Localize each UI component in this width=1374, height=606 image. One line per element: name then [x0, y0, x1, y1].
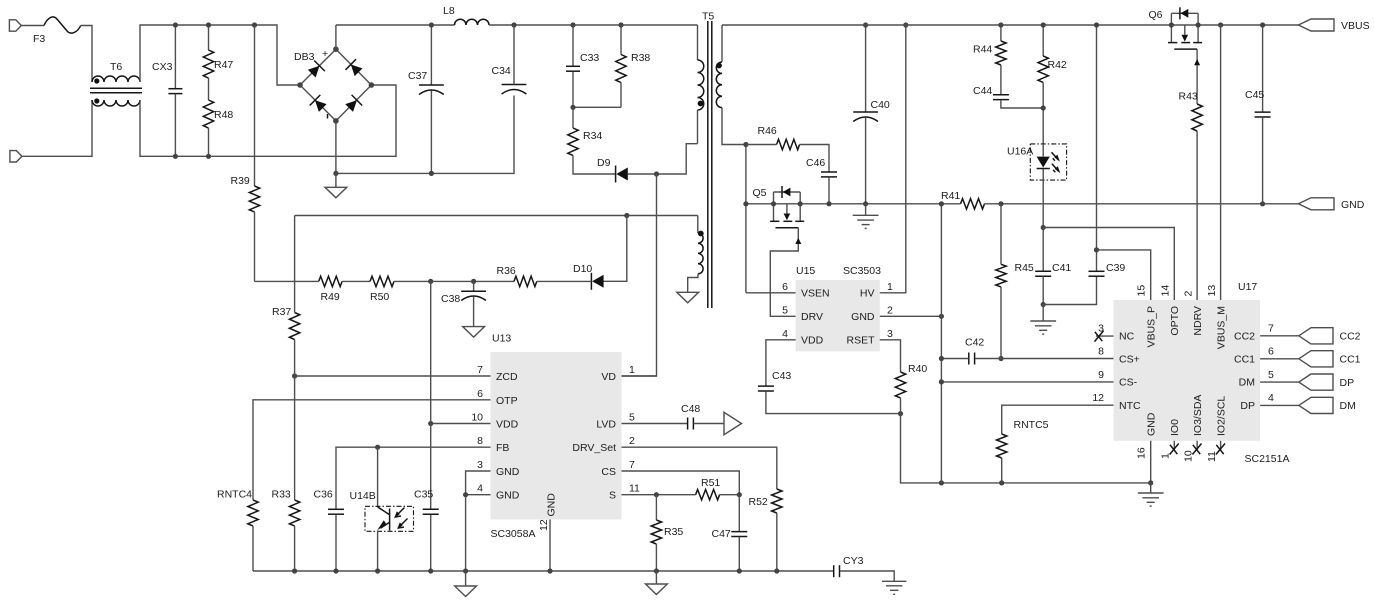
svg-text:6: 6 [1268, 346, 1274, 358]
no-connect X IO0 [1170, 444, 1179, 455]
node R42 C44 junction [1041, 105, 1046, 110]
svg-text:CC2: CC2 [1234, 331, 1255, 343]
controller U17 SC2151A body [1114, 300, 1261, 441]
top rail DB3 to L8 [336, 24, 455, 26]
node rail C36 [333, 568, 338, 573]
resistor RNTC5 [997, 434, 1007, 458]
svg-text:T6: T6 [110, 61, 122, 73]
wire CS+ line [975, 358, 1113, 360]
wire C41 to C39 bottom [1043, 277, 1096, 305]
svg-text:R37: R37 [272, 306, 291, 318]
node secondary R46 junction [743, 142, 748, 147]
svg-text:5: 5 [782, 304, 788, 316]
svg-text:CS+: CS+ [1119, 353, 1140, 365]
wire VSEN [746, 292, 796, 294]
wire DM pin [1260, 381, 1299, 383]
resistor R52 [772, 489, 782, 513]
resistor R33 [289, 500, 299, 526]
svg-text:Q6: Q6 [1149, 9, 1163, 21]
svg-text:R42: R42 [1048, 59, 1067, 71]
earth ground below Q5 line [853, 204, 879, 229]
transistor Q5 [770, 186, 804, 316]
node GND4 junction [463, 492, 468, 497]
svg-text:D9: D9 [597, 157, 611, 169]
ground below C38 [463, 327, 485, 338]
inductor L8 [455, 19, 490, 25]
svg-text:4: 4 [1268, 392, 1274, 404]
svg-text:HV: HV [860, 288, 875, 300]
svg-text:R39: R39 [231, 175, 250, 187]
wire DB3 plus to rail [335, 25, 337, 49]
svg-text:F3: F3 [33, 33, 45, 45]
svg-text:2: 2 [887, 304, 893, 316]
svg-text:4: 4 [782, 328, 788, 340]
U17 pin names left [1119, 331, 1141, 412]
svg-text:C40: C40 [871, 99, 890, 111]
wire VDD4 to C43 [766, 340, 796, 386]
svg-text:CC2: CC2 [1340, 331, 1361, 343]
svg-text:LVD: LVD [596, 419, 616, 431]
wire Q5 source line [746, 203, 961, 205]
svg-text:C44: C44 [973, 85, 992, 97]
svg-text:L8: L8 [443, 5, 455, 17]
svg-text:RSET: RSET [846, 335, 875, 347]
resistor R35 [651, 495, 661, 571]
svg-text:OTP: OTP [496, 395, 518, 407]
svg-text:R52: R52 [749, 496, 768, 508]
node R39 top rail [252, 22, 257, 27]
U13 pin numbers right [629, 364, 640, 495]
U13 pin names right [572, 371, 616, 502]
capacitor CY3 [834, 565, 840, 577]
svg-text:C48: C48 [681, 403, 700, 415]
svg-text:VD: VD [601, 371, 616, 383]
node R40 C43 junction [898, 411, 903, 416]
node C37 bottom [429, 171, 434, 176]
svg-text:C35: C35 [414, 489, 433, 501]
node ZCD junction [292, 373, 297, 378]
wire RNTC4 to rail [252, 526, 254, 571]
svg-text:C41: C41 [1052, 262, 1071, 274]
svg-text:R38: R38 [631, 52, 650, 64]
svg-text:GND: GND [496, 490, 520, 502]
svg-text:11: 11 [1206, 451, 1218, 462]
wire OTP [253, 400, 491, 500]
node CS- gnd column [939, 379, 944, 384]
svg-text:NTC: NTC [1119, 400, 1141, 412]
wire LVD to C48 [622, 423, 688, 425]
wire R49 R50 [342, 280, 370, 282]
svg-text:3: 3 [887, 328, 893, 340]
resistor R51 [696, 490, 720, 500]
svg-text:+: + [322, 48, 328, 60]
resistor R49 [319, 276, 342, 286]
U17 pin numbers bottom rotated [1136, 447, 1218, 462]
connector DP [1299, 374, 1333, 390]
svg-text:CX3: CX3 [152, 61, 173, 73]
wire DRV_Set to R52 [622, 447, 777, 489]
svg-text:2: 2 [629, 435, 635, 447]
svg-text:SC2151A: SC2151A [1245, 453, 1290, 465]
svg-text:U16A: U16A [1007, 146, 1033, 158]
wire R39 to R49 line [255, 280, 319, 282]
svg-text:10: 10 [1183, 450, 1195, 462]
svg-text:R43: R43 [1179, 91, 1198, 103]
wire R40 node to ground line [901, 398, 1151, 483]
ground below GND4 [455, 571, 477, 597]
label DB3 minus [327, 114, 329, 119]
node C42 gnd column [939, 356, 944, 361]
svg-text:NC: NC [1119, 331, 1135, 343]
optocoupler U16A led [1030, 144, 1066, 228]
ground primary below DB3 [325, 173, 347, 197]
node rail C47 [737, 568, 742, 573]
wire C34 top [513, 25, 515, 85]
svg-text:R33: R33 [272, 489, 291, 501]
connector DM [1299, 397, 1333, 413]
svg-text:C36: C36 [314, 489, 333, 501]
U17 IO2 stub [1220, 441, 1222, 450]
resistor R44 [996, 25, 1006, 94]
node aux D10 junction [624, 213, 629, 218]
wire fuse to T6 top winding [81, 26, 92, 83]
wire GND2 [880, 315, 942, 317]
node C45 bottom [1260, 201, 1265, 206]
wire R46 [746, 145, 829, 172]
resistor R40 [895, 372, 905, 398]
svg-text:ZCD: ZCD [496, 371, 518, 383]
node C39 top rail [1094, 22, 1099, 27]
svg-text:DP: DP [1240, 400, 1255, 412]
node C45 top [1260, 22, 1265, 27]
off-page arrow LVD [724, 412, 742, 434]
svg-text:DRV_Set: DRV_Set [572, 442, 616, 454]
svg-text:7: 7 [477, 364, 483, 376]
svg-text:VSEN: VSEN [801, 288, 830, 300]
wire connector2 to T6 bottom winding [22, 100, 92, 156]
wire RNTC5 to ground line [1001, 458, 1003, 483]
wire R50 to R36 [394, 280, 514, 282]
svg-text:DM: DM [1340, 400, 1356, 412]
top rail L8 to T5 primary [489, 24, 698, 26]
node U17 GND [1148, 480, 1153, 485]
node R41 left [939, 201, 944, 206]
node VDD column top [428, 279, 433, 284]
wire S pin [622, 494, 696, 496]
ground below aux winding [677, 292, 699, 303]
svg-text:R48: R48 [214, 109, 233, 121]
svg-text:1: 1 [629, 364, 635, 376]
svg-text:8: 8 [477, 435, 483, 447]
svg-text:13: 13 [1206, 285, 1218, 297]
U17 NC stub [1096, 335, 1114, 337]
svg-text:2: 2 [1183, 291, 1195, 297]
node VBUS_M rail [1218, 22, 1223, 27]
diode DB3 top-left [306, 60, 324, 78]
svg-text:16: 16 [1136, 447, 1148, 459]
connector GND [1298, 198, 1334, 210]
wire CC2 [1260, 335, 1299, 337]
wire GND3 [466, 471, 491, 495]
node CX3 top [173, 22, 178, 27]
svg-text:CY3: CY3 [843, 555, 864, 567]
svg-text:GND: GND [1145, 412, 1157, 436]
svg-text:C39: C39 [1106, 262, 1125, 274]
node R44 top [998, 22, 1003, 27]
node C37 top [429, 22, 434, 27]
node snubber join [570, 105, 575, 110]
U17 IO0 stub [1173, 441, 1175, 450]
svg-text:D10: D10 [573, 263, 592, 275]
svg-text:R35: R35 [664, 526, 683, 538]
capacitor C45 [1255, 25, 1271, 204]
resistor R34 [568, 107, 616, 174]
svg-text:C42: C42 [965, 337, 984, 349]
node S R35 junction [654, 492, 659, 497]
svg-text:6: 6 [782, 281, 788, 293]
svg-text:U15: U15 [796, 265, 815, 277]
wire FB [336, 447, 491, 509]
node VDD junction [428, 421, 433, 426]
svg-text:U17: U17 [1238, 281, 1257, 293]
wire VBUS_P line [1097, 250, 1151, 300]
svg-text:IO0: IO0 [1169, 419, 1181, 436]
wire R43 to NDRV [1196, 131, 1198, 300]
no-connect X IO3 [1192, 444, 1201, 455]
svg-text:6: 6 [477, 388, 483, 400]
node rail GND12 [547, 568, 552, 573]
capacitor C48 [688, 418, 724, 430]
svg-text:8: 8 [1098, 346, 1104, 358]
T5 secondary winding [716, 25, 746, 145]
transformer T6 common-mode choke [90, 76, 142, 106]
no-connect X NC [1095, 331, 1104, 342]
wire RSET to R40 [880, 340, 901, 372]
resistor R36 [514, 276, 537, 286]
wire R37 column [294, 216, 296, 377]
resistor R39 [249, 25, 259, 281]
capacitor C39 [1089, 25, 1105, 276]
wire OPTO line [1043, 228, 1174, 301]
svg-text:OPTO: OPTO [1169, 306, 1181, 336]
svg-text:VBUS_P: VBUS_P [1145, 306, 1157, 347]
diode D9 [616, 166, 628, 183]
connector VBUS [1298, 19, 1334, 31]
svg-text:SC3058A: SC3058A [491, 528, 536, 540]
wire ZCD to R33 to rail [294, 376, 296, 571]
diode DB3 bottom-left [310, 95, 328, 113]
resistor R41 [961, 199, 985, 209]
fuse F3 [44, 17, 81, 33]
node C46 bottom [826, 201, 831, 206]
T5 auxiliary winding [688, 216, 704, 293]
svg-text:SC3503: SC3503 [843, 265, 881, 277]
svg-text:NDRV: NDRV [1192, 306, 1204, 336]
node C41 bottom [1041, 302, 1046, 307]
resistor R45 [996, 204, 1006, 359]
svg-text:GND: GND [496, 466, 520, 478]
capacitor C35 [423, 509, 439, 514]
T5 primary winding [698, 25, 704, 144]
node C33 top [570, 22, 575, 27]
node rail R33 [292, 568, 297, 573]
svg-text:R47: R47 [214, 59, 233, 71]
node rail C35 [428, 568, 433, 573]
node U16A OPTO junction [1041, 225, 1046, 230]
svg-text:C34: C34 [492, 65, 511, 77]
wire T6 bottom-right to bottom rail [140, 85, 396, 156]
wire R47-R48 [208, 78, 210, 100]
wire CS- line [941, 381, 1113, 383]
wire CY3 to earth [840, 571, 894, 581]
node DB3 minus junction [333, 171, 338, 176]
U17 GND stem [1150, 441, 1152, 483]
node GND2 junction [939, 314, 944, 319]
capacitor C41 [1035, 228, 1051, 305]
wire GND4 [466, 495, 491, 571]
svg-text:VBUS: VBUS [1341, 20, 1370, 32]
capacitor C43 [758, 386, 901, 414]
node R41 right [998, 201, 1003, 206]
resistor R42 [1038, 25, 1048, 144]
resistor RNTC4 [248, 500, 258, 526]
diode DB3 bottom-right [344, 95, 362, 113]
U13 pin names left [496, 371, 520, 502]
resistor R43 [1192, 104, 1202, 131]
svg-text:C43: C43 [772, 370, 791, 382]
resistor R50 [370, 276, 394, 286]
earth ground CY3 [882, 581, 906, 594]
node CS C47 junction [737, 492, 742, 497]
U17 pin names right [1234, 331, 1255, 412]
U15 pin names [801, 288, 875, 347]
node CX3 bottom [173, 154, 178, 159]
capacitor C36 [328, 509, 344, 571]
svg-text:R44: R44 [973, 44, 992, 56]
svg-text:10: 10 [471, 412, 483, 424]
wire C33 R38 join [573, 106, 621, 108]
svg-text:FB: FB [496, 442, 509, 454]
svg-text:12: 12 [1092, 392, 1104, 404]
svg-text:C45: C45 [1245, 89, 1264, 101]
wire T6 top-right to top rail [140, 25, 300, 85]
U17 pin numbers right [1268, 323, 1274, 405]
transistor Q6 [1168, 7, 1202, 104]
U17 pin names top rotated [1145, 306, 1227, 349]
node R48 bottom [206, 154, 211, 159]
svg-text:CC1: CC1 [1234, 353, 1255, 365]
diode DB3 top-right [345, 59, 363, 77]
svg-text:IO3/SDA: IO3/SDA [1192, 395, 1204, 436]
resistor R46 [777, 139, 800, 149]
wire VDD [431, 423, 491, 425]
svg-text:C33: C33 [580, 52, 599, 64]
svg-text:DB3: DB3 [294, 51, 315, 63]
wire secondary to Q5 column [745, 145, 747, 293]
wire D9 to drain node [628, 144, 698, 174]
svg-text:CS-: CS- [1119, 377, 1138, 389]
svg-text:IO2/SCL: IO2/SCL [1215, 396, 1227, 436]
U17 pin numbers top rotated [1136, 285, 1218, 297]
U17 pin numbers left [1092, 323, 1104, 405]
svg-text:R45: R45 [1015, 262, 1034, 274]
svg-text:GND: GND [546, 493, 558, 517]
resistor R48 [203, 100, 213, 156]
wire NTC line [1002, 405, 1114, 434]
wire D10 anode to aux line [604, 216, 627, 282]
capacitor C44 [993, 95, 1043, 108]
node C39 VBUS_P junction [1094, 247, 1099, 252]
capacitor C34 [502, 85, 527, 95]
svg-text:1: 1 [887, 281, 893, 293]
svg-text:C37: C37 [408, 70, 427, 82]
node R47 top [206, 22, 211, 27]
transformer T5 core [708, 21, 712, 308]
svg-text:9: 9 [1098, 369, 1104, 381]
no-connect X IO2 [1216, 444, 1225, 455]
svg-text:15: 15 [1136, 285, 1148, 297]
earth ground U17 [1138, 483, 1164, 506]
svg-text:R41: R41 [941, 190, 960, 202]
node rail U14B [375, 568, 380, 573]
svg-text:RNTC4: RNTC4 [217, 489, 252, 501]
node C38 top [471, 279, 476, 284]
wire R52 to rail [776, 513, 778, 571]
capacitor CX3 [168, 25, 182, 156]
capacitor C33 [566, 25, 580, 107]
capacitor C40 [853, 25, 878, 204]
diode D10 [591, 273, 603, 290]
node R42 top [1041, 22, 1046, 27]
node sec-gnd R41 column [939, 480, 944, 485]
U17 IO3 stub [1196, 441, 1198, 450]
wire R41 to GND connector [985, 203, 1299, 205]
resistor R38 [616, 25, 626, 107]
svg-text:DRV: DRV [801, 311, 823, 323]
top rail secondary to VBUS [722, 24, 1298, 26]
svg-text:C38: C38 [441, 293, 460, 305]
wire minus node to C34 bottom [336, 96, 514, 174]
capacitor C46 [821, 172, 837, 204]
svg-text:4: 4 [477, 483, 483, 495]
node C40 top [863, 22, 868, 27]
resistor R37 [289, 313, 299, 340]
svg-text:7: 7 [629, 459, 635, 471]
svg-text:RNTC5: RNTC5 [1014, 419, 1049, 431]
svg-text:14: 14 [1159, 285, 1171, 297]
node C40 bottom [863, 201, 868, 206]
node C34 top [511, 22, 516, 27]
svg-text:3: 3 [477, 459, 483, 471]
svg-text:R49: R49 [321, 291, 340, 303]
svg-text:T5: T5 [702, 11, 714, 23]
capacitor C38 [461, 281, 486, 326]
node drain junction [654, 171, 659, 176]
node FB U14B junction [375, 445, 380, 450]
U13 pin numbers left [471, 364, 483, 495]
svg-text:R36: R36 [497, 265, 516, 277]
resistor R47 [203, 25, 213, 78]
connector CC2 [1299, 328, 1333, 344]
bridge rectifier DB3 [297, 46, 374, 123]
node HV rail [903, 22, 908, 27]
svg-text:R46: R46 [758, 125, 777, 137]
wire DP pin [1260, 404, 1299, 406]
U15 pin numbers [782, 281, 893, 340]
capacitor C47 [731, 495, 747, 571]
svg-text:R40: R40 [908, 363, 927, 375]
node RNTC5 ground [999, 480, 1004, 485]
